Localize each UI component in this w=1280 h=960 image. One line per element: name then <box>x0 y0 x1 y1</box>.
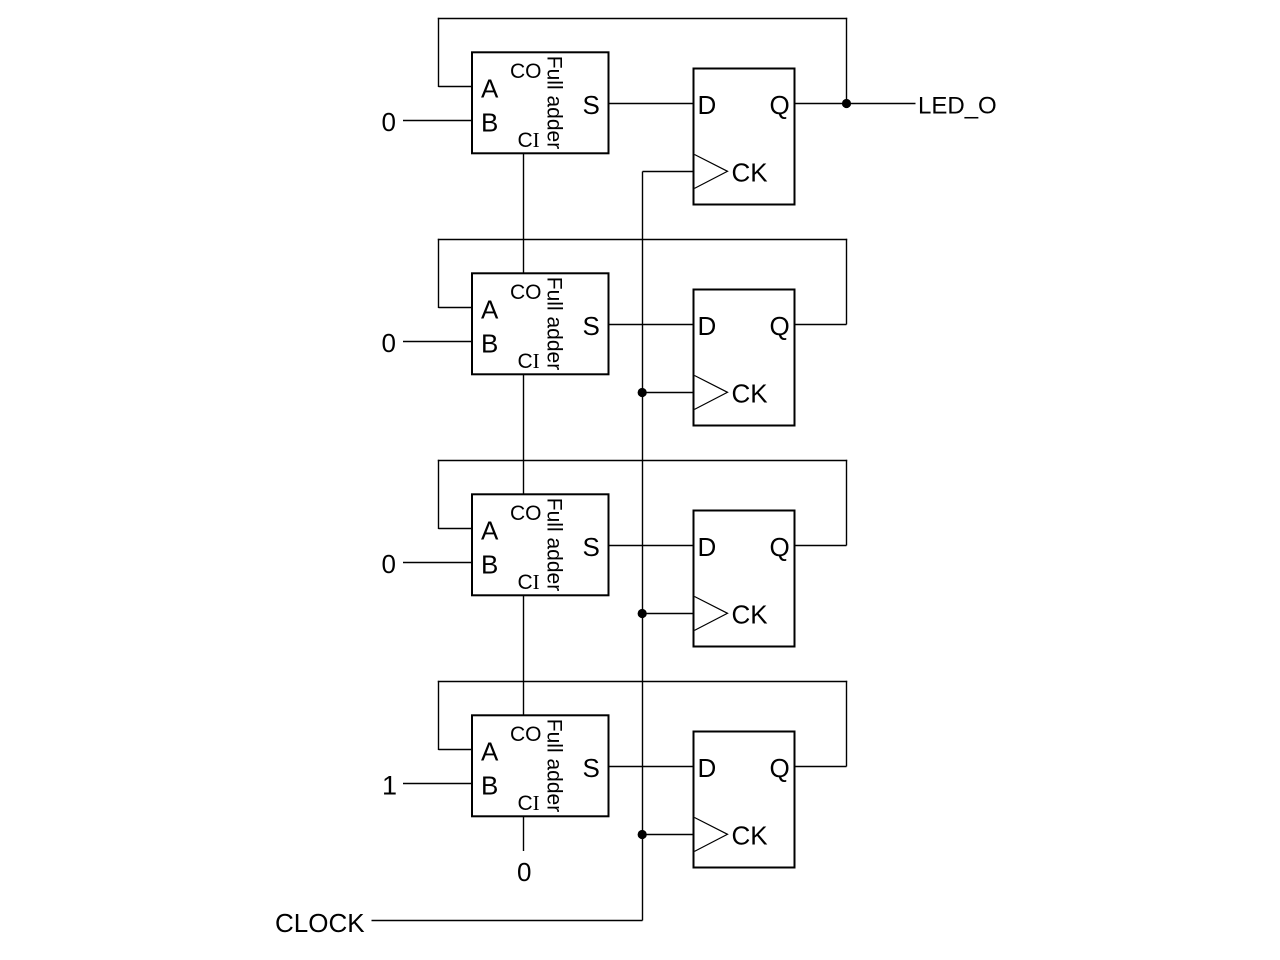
wire CLOCK input horizontal <box>372 920 643 922</box>
svg-text:Q: Q <box>770 753 790 783</box>
svg-text:B: B <box>481 108 498 138</box>
wire A input of U1 from feedback <box>439 86 473 88</box>
svg-text:Q: Q <box>770 311 790 341</box>
wire S3 to D3 <box>609 545 694 547</box>
full adder U4 <box>472 715 609 816</box>
D flip-flop FF2 <box>694 290 795 426</box>
junction LED_O node <box>842 99 851 108</box>
D flip-flop FF4 <box>694 732 795 868</box>
svg-text:CLOCK: CLOCK <box>275 908 365 938</box>
svg-text:Full adder: Full adder <box>542 498 565 591</box>
svg-text:1: 1 <box>382 771 397 801</box>
svg-text:CI: CI <box>518 349 540 373</box>
wire A input of U2 from feedback <box>439 307 473 309</box>
clock edge triangle (FF1) <box>695 155 728 189</box>
svg-text:Q: Q <box>770 532 790 562</box>
wire S2 to D2 <box>609 324 694 326</box>
wire S4 to D4 <box>609 766 694 768</box>
svg-text:Full adder: Full adder <box>542 56 565 149</box>
svg-text:S: S <box>583 311 600 341</box>
wire LED_O output <box>847 103 916 105</box>
wire Q1 output to feedback <box>795 103 847 105</box>
wire CK input of FF4 <box>643 834 694 836</box>
wire CI stub of U4 to constant 0 <box>523 817 525 852</box>
svg-text:CK: CK <box>732 379 769 409</box>
full adder U3 <box>472 494 609 595</box>
svg-text:B: B <box>481 550 498 580</box>
wire feedback right vertical (row 2) <box>846 239 848 325</box>
wire feedback right vertical (row 4) <box>846 681 848 767</box>
wire feedback top horizontal (row 1) <box>438 18 847 20</box>
wire carry CO of U3 to CI of U2 <box>523 374 525 495</box>
svg-text:CI: CI <box>518 570 540 594</box>
full adder U1 <box>472 52 609 153</box>
wire feedback left vertical (row 3) <box>438 460 440 529</box>
svg-text:A: A <box>481 516 499 546</box>
svg-text:0: 0 <box>517 857 531 887</box>
wire B input of U3 <box>403 562 472 564</box>
wire feedback left vertical (row 1) <box>438 18 440 87</box>
svg-text:D: D <box>698 532 717 562</box>
svg-text:S: S <box>583 532 600 562</box>
svg-text:S: S <box>583 90 600 120</box>
wire feedback left vertical (row 4) <box>438 681 440 750</box>
svg-text:B: B <box>481 771 498 801</box>
svg-text:Q: Q <box>770 90 790 120</box>
svg-text:A: A <box>481 737 499 767</box>
wire S1 to D1 <box>609 103 694 105</box>
wire carry CO of U4 to CI of U3 <box>523 595 525 716</box>
wire feedback right vertical (row 3) <box>846 460 848 546</box>
junction on clock net at CK of FF3 <box>638 609 647 618</box>
svg-text:CO: CO <box>510 281 542 304</box>
svg-text:D: D <box>698 753 717 783</box>
clock edge triangle (FF2) <box>695 376 728 410</box>
svg-text:B: B <box>481 329 498 359</box>
wire A input of U4 from feedback <box>439 749 473 751</box>
svg-text:0: 0 <box>382 549 396 579</box>
wire A input of U3 from feedback <box>439 528 473 530</box>
svg-text:CI: CI <box>518 791 540 815</box>
wire Q2 output to feedback <box>795 324 847 326</box>
svg-text:0: 0 <box>382 328 396 358</box>
svg-text:CO: CO <box>510 723 542 746</box>
svg-text:CK: CK <box>732 600 769 630</box>
D flip-flop FF3 <box>694 511 795 647</box>
wire feedback left vertical (row 2) <box>438 239 440 308</box>
svg-text:S: S <box>583 753 600 783</box>
wire feedback top horizontal (row 3) <box>438 460 847 462</box>
svg-text:CK: CK <box>732 821 769 851</box>
svg-text:CO: CO <box>510 60 542 83</box>
wire Q3 output to feedback <box>795 545 847 547</box>
D flip-flop FF1 <box>694 69 795 205</box>
svg-text:A: A <box>481 295 499 325</box>
svg-text:CI: CI <box>518 128 540 152</box>
svg-text:LED_O: LED_O <box>918 93 997 120</box>
clock edge triangle (FF4) <box>695 818 728 852</box>
wire B input of U2 <box>403 341 472 343</box>
wire B input of U4 <box>403 783 472 785</box>
wire feedback top horizontal (row 2) <box>438 239 847 241</box>
svg-text:D: D <box>698 311 717 341</box>
svg-text:D: D <box>698 90 717 120</box>
svg-text:CO: CO <box>510 502 542 525</box>
svg-text:Full adder: Full adder <box>542 277 565 370</box>
clock edge triangle (FF3) <box>695 597 728 631</box>
wire carry CO of U2 to CI of U1 <box>523 153 525 274</box>
full adder U2 <box>472 273 609 374</box>
wire B input of U1 <box>403 120 472 122</box>
wire CK input of FF2 <box>643 392 694 394</box>
wire CK input of FF1 <box>643 171 694 173</box>
svg-text:A: A <box>481 74 499 104</box>
wire CK input of FF3 <box>643 613 694 615</box>
junction on clock net at CK of FF4 <box>638 830 647 839</box>
junction on clock net at CK of FF2 <box>638 388 647 397</box>
wire Q4 output to feedback <box>795 766 847 768</box>
svg-text:CK: CK <box>732 158 769 188</box>
wire feedback right vertical (row 1) <box>846 18 848 104</box>
wire clock vertical distribution <box>642 172 644 921</box>
wire feedback top horizontal (row 4) <box>438 681 847 683</box>
svg-text:0: 0 <box>382 107 396 137</box>
svg-text:Full adder: Full adder <box>542 719 565 812</box>
